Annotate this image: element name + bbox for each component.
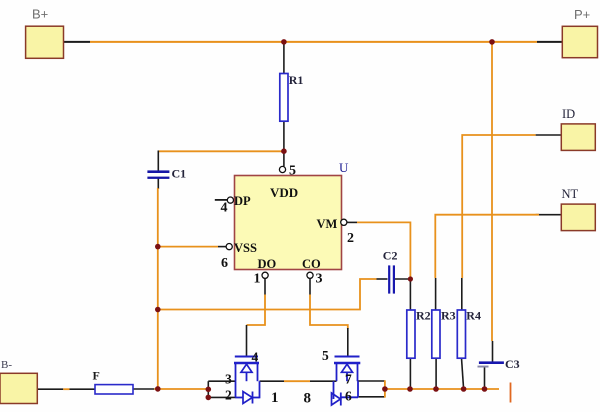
svg-text:2: 2 <box>347 231 354 246</box>
wire VM to R2/C2 junction <box>347 222 410 279</box>
wire main rail VSS bus to C2 left <box>158 279 388 310</box>
svg-text:P+: P+ <box>574 7 590 22</box>
IC U main chip <box>234 160 349 271</box>
svg-text:R1: R1 <box>289 73 304 87</box>
svg-text:B-: B- <box>1 359 12 371</box>
diode D1 body diode left <box>236 381 260 403</box>
svg-text:DO: DO <box>258 257 277 271</box>
svg-text:NT: NT <box>562 187 579 201</box>
terminal B- <box>0 359 37 404</box>
svg-text:VSS: VSS <box>234 241 257 255</box>
terminal P+ <box>562 7 597 58</box>
junction dot R3 bottom <box>433 386 439 392</box>
diode D2 body diode right <box>332 381 359 405</box>
wire R4 bottom lead <box>462 358 464 389</box>
svg-text:DP: DP <box>234 194 251 208</box>
wire R1 top lead <box>283 42 285 74</box>
pin 2 circle VM <box>341 219 354 246</box>
terminal ID <box>561 107 595 150</box>
wire C1 bottom / left vertical bus to fuse junction <box>157 179 160 390</box>
svg-text:VDD: VDD <box>270 185 298 200</box>
junction dot R4 bottom <box>461 386 467 392</box>
junction dot C2 R2 VM <box>408 276 413 281</box>
svg-text:3: 3 <box>225 372 232 387</box>
svg-text:B+: B+ <box>32 7 48 22</box>
wire right mosfet to output rails <box>358 380 385 397</box>
resistor R3 <box>432 309 456 359</box>
svg-text:C1: C1 <box>172 167 187 181</box>
junction dot R2 bottom <box>407 386 413 392</box>
svg-text:8: 8 <box>304 391 312 407</box>
svg-text:R2: R2 <box>416 309 431 323</box>
junction dot C3 bottom <box>482 386 488 392</box>
wire NT to R3 top <box>435 215 561 311</box>
svg-text:5: 5 <box>322 348 329 363</box>
resistor R1 <box>280 73 304 121</box>
junction dot split bottom <box>206 395 212 401</box>
svg-text:1: 1 <box>254 272 261 287</box>
junction dot mosfet output <box>382 386 388 392</box>
junction dot R1 top <box>281 39 287 45</box>
wire CO to right gate <box>310 278 348 356</box>
svg-text:4: 4 <box>252 350 259 365</box>
wire R1 bottom lead to pin5 <box>283 121 285 166</box>
fuse F <box>93 368 134 394</box>
pin 3 circle CO <box>307 272 323 287</box>
terminal B+ <box>26 7 64 59</box>
wire ID to R4 top <box>462 135 562 311</box>
svg-text:2: 2 <box>225 388 232 403</box>
junction dot rail bus <box>155 307 161 313</box>
wire fuse to split junction <box>133 388 208 390</box>
svg-text:CO: CO <box>302 257 321 271</box>
wire VSS to left bus <box>158 246 226 248</box>
pin 6 circle VSS <box>221 244 232 272</box>
junction dot split top <box>206 387 212 393</box>
svg-text:7: 7 <box>345 372 352 387</box>
junction dot P- branch <box>489 39 495 45</box>
svg-text:U: U <box>339 160 349 175</box>
wire R3 bottom lead <box>435 358 437 389</box>
svg-text:1: 1 <box>271 390 279 406</box>
wire P- dangling stub <box>510 383 512 403</box>
pin 4 circle DP <box>221 197 234 216</box>
wire DP stub pin 4 <box>215 199 228 201</box>
wire DO to left gate <box>247 278 266 356</box>
wire C3 top lead <box>492 341 494 362</box>
svg-text:C2: C2 <box>383 249 398 263</box>
resistor R2 <box>407 309 431 359</box>
svg-text:6: 6 <box>221 256 228 271</box>
wire R2 top lead <box>409 279 411 311</box>
capacitor C3 <box>478 357 520 371</box>
capacitor C2 <box>383 249 398 294</box>
svg-text:C3: C3 <box>505 357 520 371</box>
svg-text:VM: VM <box>317 217 338 231</box>
resistor R4 <box>457 309 481 359</box>
wire P- sense vertical from top rail to C3 <box>491 42 493 341</box>
terminal NT <box>561 187 595 231</box>
wire C1 top to VDD line <box>158 151 284 171</box>
svg-text:R3: R3 <box>441 309 456 323</box>
capacitor C1 <box>147 167 186 181</box>
svg-text:4: 4 <box>221 201 228 216</box>
wire B- to fuse <box>37 388 95 390</box>
svg-text:3: 3 <box>316 272 323 287</box>
svg-text:5: 5 <box>289 164 296 179</box>
wire C2 right to junction <box>394 278 410 280</box>
svg-text:R4: R4 <box>466 309 481 323</box>
wire common drain rail between mosfets <box>260 380 337 382</box>
wire bottom orange rail <box>385 388 499 390</box>
junction dot fuse bus <box>155 386 161 392</box>
transistor Q1 left mosfet <box>234 350 259 382</box>
wire C3 bottom lead <box>484 367 486 389</box>
wire split to source rails pins 3 and 2 <box>208 381 236 397</box>
junction dot VSS bus <box>155 244 161 250</box>
pin 5 circle VDD <box>279 164 296 179</box>
junction dot C1 VDD <box>281 148 287 154</box>
svg-text:ID: ID <box>562 107 575 121</box>
svg-text:6: 6 <box>345 389 352 404</box>
pin 1 circle DO <box>254 272 269 287</box>
svg-text:F: F <box>93 368 100 382</box>
wire R2 bottom lead <box>409 358 411 389</box>
transistor Q2 right mosfet <box>322 348 360 387</box>
wire top rail B+ to P+ <box>64 41 563 43</box>
